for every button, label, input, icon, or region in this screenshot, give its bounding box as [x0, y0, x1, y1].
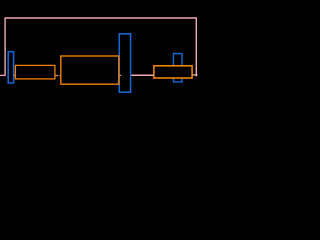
resistor R3 (large orange outline, middle) [61, 56, 119, 84]
resistor R4 (orange outline, right, drawn over C3) [154, 66, 192, 78]
highlighted net: pink loop wire [5, 18, 196, 76]
pink pin stub at R3 right edge [119, 74, 122, 76]
capacitor C1 (left blue body, pink net passes through) [8, 52, 13, 83]
pink pin stub at R2 right edge [55, 75, 58, 77]
resistor R2 (small orange outline, left) [15, 65, 55, 79]
pink pin stub C1 to R2 [14, 75, 17, 77]
capacitor C2 (tall blue body, middle) [119, 34, 130, 92]
pink net tick at left endpoint [0, 74, 6, 76]
pink net segment C2 to R4 [131, 74, 154, 76]
pink pin stub at R3 left edge [59, 75, 61, 77]
pink net jog to R4 right pin [192, 74, 197, 76]
capacitor C3 (small blue body, right) [173, 54, 182, 82]
